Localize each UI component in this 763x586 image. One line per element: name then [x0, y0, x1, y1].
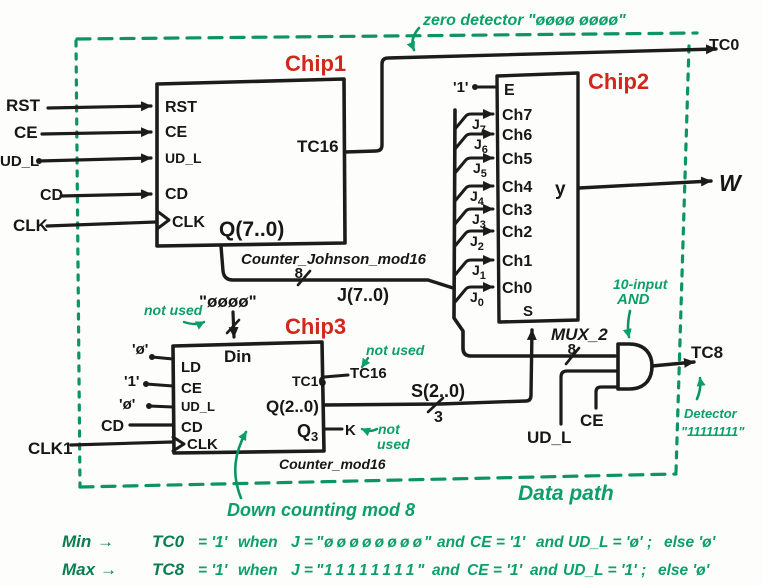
svg-text:RST: RST — [165, 99, 197, 116]
constant '1' to E — [453, 79, 497, 96]
chip3 pin CD — [181, 419, 203, 436]
svg-text:S: S — [523, 303, 533, 320]
svg-text:CD: CD — [181, 419, 203, 436]
chip1 pin CLK — [172, 214, 205, 231]
annotation not used (TC16) — [362, 342, 425, 367]
svg-text:K: K — [345, 422, 356, 439]
wire y to W — [579, 181, 711, 188]
svg-text:CD: CD — [165, 186, 188, 203]
svg-text:S(2..0): S(2..0) — [411, 381, 465, 401]
svg-text:W: W — [719, 170, 743, 196]
svg-text:CE: CE — [165, 124, 188, 141]
equation Min TC0 — [62, 532, 717, 551]
chip3 pin Q(2..0) — [266, 397, 319, 416]
svg-text:Chip3: Chip3 — [285, 314, 346, 339]
svg-text:"11111111": "11111111" — [681, 424, 745, 439]
svg-text:Ch0: Ch0 — [502, 280, 532, 297]
chip2 pin Ch6 — [502, 127, 532, 144]
svg-text:'ø': 'ø' — [132, 341, 148, 358]
value label MUX_2 — [551, 325, 608, 344]
svg-text:not used: not used — [366, 342, 425, 358]
node TC0 label — [709, 37, 739, 54]
annotation Data path — [518, 482, 614, 505]
svg-text:J6: J6 — [474, 136, 488, 156]
chip3 pin Din — [224, 347, 251, 366]
signal label CLK1 — [28, 439, 72, 458]
chip2 pin Ch3 — [502, 202, 532, 219]
chip3 pin LD — [181, 359, 201, 376]
wire Q bus chip1 to J bus — [221, 246, 453, 288]
chip3 label — [285, 314, 346, 339]
svg-text:J3: J3 — [472, 211, 486, 231]
svg-text:AND: AND — [616, 291, 650, 308]
svg-text:J1: J1 — [472, 262, 486, 282]
svg-text:Ch1: Ch1 — [502, 253, 532, 270]
chip2 label — [588, 69, 649, 94]
svg-text:CE: CE — [14, 123, 38, 142]
bus width slash 3 — [428, 398, 443, 426]
chip2 pin Ch2 — [502, 224, 532, 241]
wire Din with slash — [227, 312, 239, 337]
constant '1' to CE — [124, 373, 173, 390]
bus width slash 8 at AND input — [566, 341, 579, 364]
wire J7 branch — [455, 114, 493, 136]
svg-text:TC8: TC8 — [691, 343, 723, 362]
svg-text:J0: J0 — [470, 289, 484, 309]
svg-text:Q3: Q3 — [297, 421, 318, 444]
svg-text:CD: CD — [101, 418, 124, 435]
svg-text:MUX_2: MUX_2 — [551, 325, 608, 344]
svg-text:TC16: TC16 — [292, 373, 326, 389]
svg-text:UD_L: UD_L — [165, 150, 202, 166]
svg-text:Min→TC0= '1'whenJ ="øøøøøøøø"a: Min→TC0= '1'whenJ ="øøøøøøøø"andCE = '1'… — [62, 532, 717, 551]
svg-text:Max→TC8= '1'whenJ ="11111111"a: Max→TC8= '1'whenJ ="11111111"andCE = '1'… — [62, 560, 711, 579]
wire TC16 chip3 — [324, 365, 387, 382]
chip2 pin S — [523, 303, 533, 320]
chip2 pin Ch5 — [502, 151, 532, 168]
chip1 pin RST — [165, 99, 197, 116]
svg-text:LD: LD — [181, 359, 201, 376]
equation Max TC8 — [62, 560, 711, 579]
chip2 pin Ch1 — [502, 253, 532, 270]
svg-text:Down counting mod 8: Down counting mod 8 — [227, 500, 415, 520]
chip3 pin Q3 — [297, 421, 318, 444]
svg-text:CLK: CLK — [13, 216, 49, 235]
svg-text:Ch6: Ch6 — [502, 127, 532, 144]
wire AND output TC8 — [652, 343, 723, 366]
annotation not used (K) — [362, 421, 410, 452]
svg-text:10-input: 10-input — [613, 276, 669, 292]
signal label CLK — [13, 216, 49, 235]
wire CLK1 — [71, 442, 172, 445]
signal label CD chip3 — [101, 418, 124, 435]
signal label CD — [40, 187, 63, 204]
annotation 10-input AND — [613, 276, 669, 337]
wire S(2..0) from chip3 to mux S — [324, 330, 532, 405]
annotation Down counting mod 8 — [227, 432, 415, 520]
data path dashed boundary right — [676, 46, 689, 472]
svg-text:CE: CE — [580, 411, 604, 430]
svg-text:TC16: TC16 — [350, 365, 387, 382]
data path dashed boundary left — [76, 41, 80, 487]
chip2 pin Ch7 — [502, 107, 532, 124]
svg-text:E: E — [504, 82, 515, 99]
svg-text:J5: J5 — [473, 160, 487, 180]
value label Counter_Johnson_mod16 — [241, 251, 427, 268]
chip2 pin E — [504, 82, 515, 99]
svg-text:J2: J2 — [470, 233, 484, 253]
wire CD — [61, 194, 151, 196]
svg-text:Ch4: Ch4 — [502, 179, 532, 196]
svg-text:J(7..0): J(7..0) — [337, 285, 389, 305]
wire J0 branch — [455, 287, 493, 309]
svg-text:Counter_mod16: Counter_mod16 — [279, 456, 386, 472]
svg-text:y: y — [555, 179, 566, 200]
svg-text:Ch2: Ch2 — [502, 224, 532, 241]
svg-text:UD_L: UD_L — [181, 399, 215, 414]
chip3 pin CE — [181, 380, 202, 397]
wire UD_L to AND — [527, 371, 617, 447]
chip3 pin TC16 — [292, 373, 326, 389]
wire J1 branch — [455, 260, 493, 282]
svg-text:Chip1: Chip1 — [285, 51, 346, 76]
svg-text:'ø': 'ø' — [119, 396, 135, 413]
wire J3 branch — [455, 209, 493, 231]
net label S(2..0) — [411, 381, 465, 401]
chip1 pin UD_L — [165, 150, 202, 166]
svg-text:Data path: Data path — [518, 482, 614, 505]
wire UD_L — [36, 158, 151, 164]
constant '0' to LD — [132, 341, 173, 360]
wire TC16 to TC0 — [345, 49, 716, 152]
chip1 counter box — [157, 79, 345, 246]
svg-text:'1': '1' — [124, 373, 139, 390]
wire Q3 to K — [324, 422, 356, 439]
signal label UD_L — [0, 153, 39, 170]
bus width slash 8 — [295, 265, 310, 285]
svg-text:TC16: TC16 — [297, 137, 339, 156]
svg-text:Din: Din — [224, 347, 251, 366]
annotation Detector 11111111 — [681, 378, 745, 439]
svg-text:Ch7: Ch7 — [502, 107, 532, 124]
wire J2 branch — [455, 231, 493, 253]
chip1 clock chevron — [157, 211, 169, 229]
J bus vertical and wire to AND gate — [454, 110, 615, 356]
chip3 pin CLK — [187, 436, 218, 453]
chip3 pin UD_L — [181, 399, 215, 414]
wire CLK — [47, 222, 156, 226]
net label J(7..0) — [337, 285, 389, 305]
and gate U4 — [618, 344, 652, 389]
data path dashed boundary bottom — [80, 474, 676, 487]
svg-text:Q(2..0): Q(2..0) — [266, 397, 319, 416]
wire J5 branch — [455, 158, 493, 180]
svg-text:CE: CE — [181, 380, 202, 397]
wire J6 branch — [455, 134, 493, 156]
chip2 pin y — [555, 179, 566, 200]
chip2 pin Ch0 — [502, 280, 532, 297]
svg-text:Detector: Detector — [684, 406, 738, 421]
annotation not used (Din) — [144, 302, 204, 324]
annotation zero detector — [412, 12, 626, 50]
svg-text:Counter_Johnson_mod16: Counter_Johnson_mod16 — [241, 251, 427, 268]
signal label CE — [14, 123, 38, 142]
value label Counter_mod16 — [279, 456, 386, 472]
svg-text:CLK1: CLK1 — [28, 439, 72, 458]
chip1 pin CD — [165, 186, 188, 203]
svg-text:UD_L: UD_L — [527, 428, 571, 447]
svg-text:'1': '1' — [453, 79, 468, 96]
wire CE — [42, 132, 151, 134]
svg-text:"øøøø": "øøøø" — [199, 292, 257, 311]
svg-text:UD_L: UD_L — [0, 153, 39, 170]
svg-text:not: not — [378, 421, 401, 437]
chip1 pin TC16 — [297, 137, 339, 156]
wire J4 branch — [455, 186, 493, 208]
svg-text:RST: RST — [6, 96, 41, 115]
chip2 pin Ch4 — [502, 179, 532, 196]
chip1 label — [285, 51, 346, 76]
signal label RST — [6, 96, 41, 115]
chip1 pin CE — [165, 124, 188, 141]
chip3 clock chevron — [173, 437, 184, 451]
wire CD chip3 — [130, 423, 173, 426]
wire RST — [48, 106, 151, 108]
svg-text:not used: not used — [144, 302, 203, 318]
svg-text:Q(7..0): Q(7..0) — [219, 218, 284, 241]
svg-text:Chip2: Chip2 — [588, 69, 649, 94]
wire CE to AND — [580, 387, 616, 430]
constant "0000" to Din — [199, 292, 257, 311]
svg-text:Ch5: Ch5 — [502, 151, 532, 168]
chip2 mux box — [497, 73, 578, 322]
svg-text:Ch3: Ch3 — [502, 202, 532, 219]
svg-text:TC0: TC0 — [709, 37, 739, 54]
node W label — [719, 170, 743, 196]
chip3 counter box — [173, 342, 324, 453]
data path dashed boundary top — [77, 33, 697, 39]
svg-text:zero detector "øøøø øøøø": zero detector "øøøø øøøø" — [422, 12, 626, 29]
chip1 bus Q(7..0) — [219, 218, 284, 241]
constant '0' to UD_L — [119, 396, 173, 413]
svg-text:used: used — [377, 436, 410, 452]
svg-text:J4: J4 — [470, 188, 485, 208]
svg-text:CLK: CLK — [187, 436, 218, 453]
svg-text:3: 3 — [434, 409, 443, 426]
svg-text:CLK: CLK — [172, 214, 205, 231]
